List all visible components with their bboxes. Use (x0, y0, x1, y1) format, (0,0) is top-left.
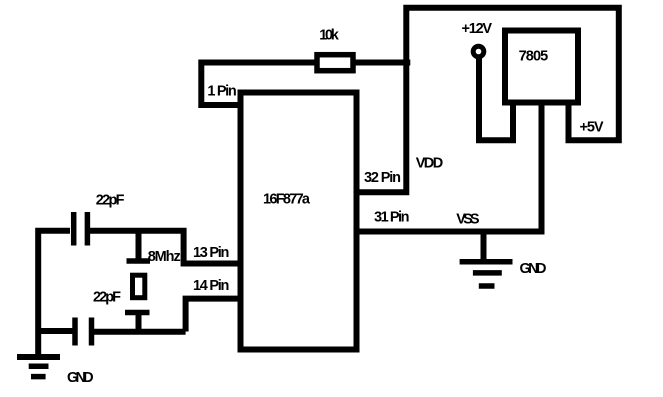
svg-text:GND: GND (520, 261, 547, 277)
svg-text:VSS: VSS (456, 212, 480, 228)
svg-text:16F877a: 16F877a (263, 192, 311, 208)
svg-text:31 Pin: 31 Pin (374, 210, 410, 226)
svg-text:13 Pin: 13 Pin (193, 245, 229, 261)
svg-text:14 Pin: 14 Pin (193, 278, 229, 294)
svg-text:8Mhz: 8Mhz (148, 249, 181, 265)
svg-text:GND: GND (67, 370, 94, 386)
svg-text:22pF: 22pF (96, 192, 125, 208)
svg-text:7805: 7805 (519, 49, 549, 65)
svg-text:+12V: +12V (462, 21, 493, 37)
svg-text:10k: 10k (319, 28, 339, 44)
svg-text:22pF: 22pF (93, 290, 121, 306)
svg-text:1 Pin: 1 Pin (207, 84, 236, 100)
svg-text:VDD: VDD (416, 156, 444, 172)
svg-text:+5V: +5V (580, 120, 604, 136)
svg-text:32 Pin: 32 Pin (364, 170, 401, 186)
